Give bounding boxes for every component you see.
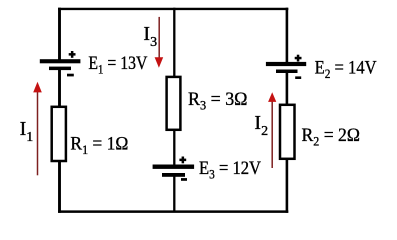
svg-text:I1: I1 xyxy=(20,118,34,145)
label R1 = 1ohm xyxy=(70,134,128,158)
wire right lower (R2 to bottom wire) xyxy=(286,159,289,213)
svg-text:R2 = 2Ω: R2 = 2Ω xyxy=(302,125,361,149)
wire middle between R3 and E3 xyxy=(173,130,175,166)
wire middle lower (E3 to bottom wire) xyxy=(173,177,175,213)
resistor R3 xyxy=(167,77,181,130)
wire left lower (R1 to bottom wire) xyxy=(58,161,61,213)
svg-text:E1 = 13V: E1 = 13V xyxy=(88,53,147,77)
label R3 = 3ohm xyxy=(188,89,248,113)
svg-text:R1 = 1Ω: R1 = 1Ω xyxy=(70,134,128,158)
wire left middle (E1 to R1) xyxy=(58,70,61,108)
svg-text:I3: I3 xyxy=(143,23,157,50)
wire right middle (E2 to R2) xyxy=(286,73,289,107)
wire right upper (top wire to E2) xyxy=(286,8,289,63)
wire top xyxy=(58,8,288,10)
svg-text:E3 = 12V: E3 = 12V xyxy=(199,158,261,182)
label E2 = 14V xyxy=(315,58,377,82)
svg-text:R3 = 3Ω: R3 = 3Ω xyxy=(188,89,248,113)
label E1 = 13V xyxy=(88,53,147,77)
label E3 = 12V xyxy=(199,158,261,182)
svg-text:E2 = 14V: E2 = 14V xyxy=(315,58,377,82)
battery E3 xyxy=(153,157,195,181)
current arrow I2 xyxy=(268,92,276,168)
label I2 xyxy=(254,112,268,139)
label I1 xyxy=(20,118,34,145)
label I3 xyxy=(143,23,157,50)
current arrow I1 xyxy=(33,82,42,176)
label R2 = 2ohm xyxy=(302,125,361,149)
resistor R2 xyxy=(280,105,295,159)
wire left upper (top wire to E1) xyxy=(58,8,61,60)
wire middle upper (top wire to R3) xyxy=(173,8,175,78)
svg-text:I2: I2 xyxy=(254,112,268,139)
current arrow I3 xyxy=(155,17,164,68)
resistor R1 xyxy=(52,107,66,161)
battery E1 xyxy=(40,51,81,76)
battery E2 xyxy=(266,55,306,79)
wire bottom xyxy=(58,210,288,213)
